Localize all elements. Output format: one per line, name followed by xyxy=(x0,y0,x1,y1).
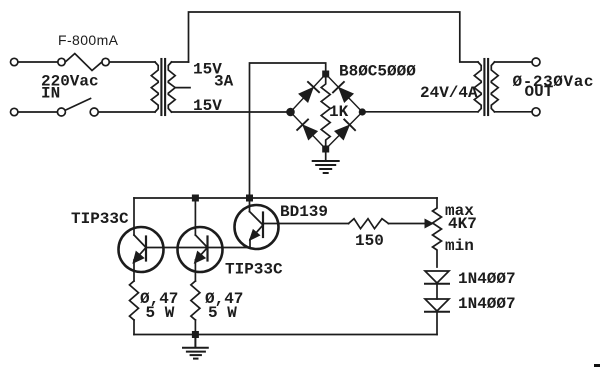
transformer T2 primary winding xyxy=(474,62,481,112)
wire bridge AC right to T2 primary xyxy=(366,111,478,113)
wire diode to bottom rail xyxy=(436,312,438,335)
svg-text:15V: 15V xyxy=(193,97,222,115)
wire Q2 collector drop xyxy=(194,198,196,235)
node bottom rail ground pad xyxy=(192,331,199,338)
bridge rectifier B80C5000 frame xyxy=(291,74,363,149)
wire switch to T1 primary xyxy=(98,111,155,113)
svg-text:1N4ØØ7: 1N4ØØ7 xyxy=(458,270,516,288)
ground bridge xyxy=(313,161,339,173)
bridge diode bottom-left xyxy=(297,120,316,140)
resistor 1K bleeder xyxy=(321,77,330,146)
node bridge AC left junction xyxy=(286,108,295,117)
wire resistor 150 to pot wiper xyxy=(389,223,426,225)
transformer T2 secondary winding xyxy=(491,62,498,112)
transistor Q1 TIP33C xyxy=(119,227,164,281)
node bridge DC- pad xyxy=(322,146,329,153)
svg-text:min: min xyxy=(445,237,474,255)
resistor 150 xyxy=(349,219,389,229)
node rail Q2 junction pad xyxy=(192,195,199,202)
svg-text:5 W: 5 W xyxy=(208,304,237,322)
wire base rail Q1 Q2 to BD139 emitter xyxy=(146,247,250,249)
wire bridge DC+ to regulator drop xyxy=(250,63,326,194)
wire T2 secondary bottom to OUT xyxy=(495,111,533,113)
wire Q1 collector drop xyxy=(133,198,135,235)
transistor Q2 TIP33C xyxy=(178,227,223,281)
resistor R2 0.47 5W xyxy=(191,281,200,320)
bridge diode top-right xyxy=(333,82,353,102)
diode D1 1N4007 xyxy=(425,271,449,284)
fuse F-800mA xyxy=(58,54,110,71)
terminal 220Vac line bottom xyxy=(11,108,18,115)
svg-text:5 W: 5 W xyxy=(146,304,175,322)
transformer T1 core xyxy=(161,59,165,115)
pot wiper arrow xyxy=(425,219,435,229)
wire top rail 15V to T2 primary xyxy=(189,12,479,62)
wire xyxy=(18,61,58,63)
wire bottom rail xyxy=(134,334,437,336)
potentiometer 4K7 xyxy=(433,198,442,267)
svg-text:TIP33C: TIP33C xyxy=(225,261,283,279)
svg-text:OUT: OUT xyxy=(525,83,554,101)
svg-text:1N4ØØ7: 1N4ØØ7 xyxy=(458,295,516,313)
node rail BD139 junction pad xyxy=(246,195,253,202)
transformer T1 primary winding xyxy=(151,62,158,112)
wire xyxy=(18,111,57,113)
bridge diode bottom-right xyxy=(336,120,356,140)
svg-text:BD139: BD139 xyxy=(280,203,328,221)
svg-text:1K: 1K xyxy=(329,103,349,121)
corner watermark mark xyxy=(594,364,600,367)
svg-text:F-800mA: F-800mA xyxy=(58,32,119,48)
transistor Q3 BD139 xyxy=(235,198,279,249)
terminal 220Vac line top xyxy=(11,58,18,65)
wire regulator top rail xyxy=(134,197,437,199)
svg-text:B8ØC5ØØØ: B8ØC5ØØØ xyxy=(339,63,416,81)
wire BD139 base to resistor 150 xyxy=(279,223,349,225)
wire T1 secondary top 15V xyxy=(172,61,189,63)
wire R2 to bottom rail xyxy=(194,320,196,335)
node bridge DC+ pad xyxy=(322,71,329,78)
svg-text:3A: 3A xyxy=(214,73,234,91)
bridge diode top-left xyxy=(300,82,319,102)
wire R1 to bottom rail xyxy=(133,320,135,335)
diode D2 1N4007 xyxy=(425,299,449,312)
wire bridge DC- to ground xyxy=(325,153,327,161)
node bridge AC right junction xyxy=(359,108,366,115)
wire T1 center tap 3A stub xyxy=(175,87,190,89)
switch S1 mains xyxy=(57,99,98,117)
svg-text:24V/4A: 24V/4A xyxy=(420,84,478,102)
wire T2 secondary top to OUT xyxy=(495,61,533,63)
transformer T1 secondary winding xyxy=(168,62,175,112)
svg-text:IN: IN xyxy=(41,85,60,103)
svg-text:150: 150 xyxy=(355,232,384,250)
wire T1 secondary bottom 15V to bridge AC left xyxy=(172,111,287,113)
transformer T2 core xyxy=(484,59,488,115)
terminal OUT top xyxy=(532,58,540,66)
wire fuse to T1 primary xyxy=(109,61,155,63)
terminal OUT bottom xyxy=(532,108,540,116)
ground bottom xyxy=(183,338,208,359)
svg-text:4K7: 4K7 xyxy=(448,215,477,233)
svg-text:TIP33C: TIP33C xyxy=(71,210,129,228)
resistor R1 0.47 5W xyxy=(130,281,139,320)
wire between diodes xyxy=(436,284,438,299)
